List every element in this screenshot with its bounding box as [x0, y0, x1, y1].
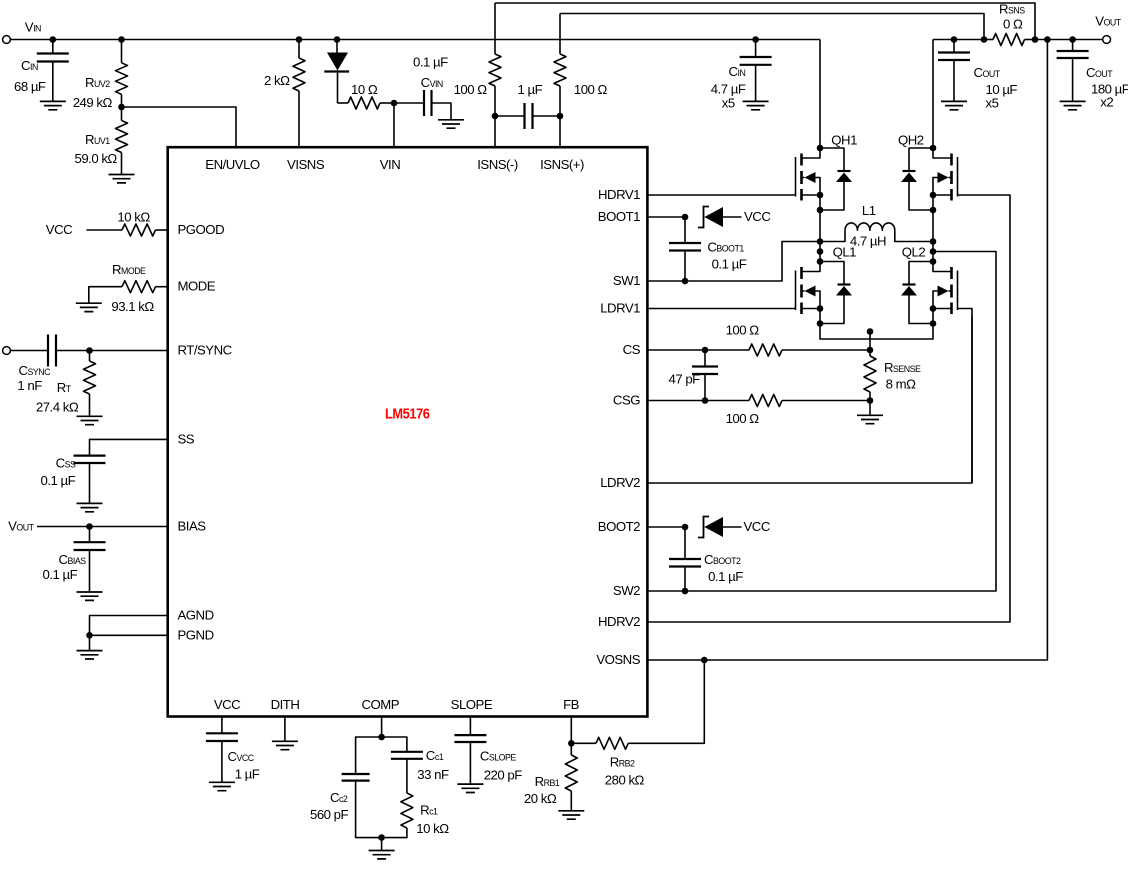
svg-text:VOSNS: VOSNS: [596, 652, 640, 667]
node AGND/PGND junction: [86, 632, 93, 639]
capacitor 1uF ISNS filter: [495, 115, 525, 117]
node BOOT2 junction: [682, 524, 689, 531]
inductor L1 4.7uH: [820, 230, 845, 241]
node COMP junction: [378, 734, 385, 741]
svg-text:VISNS: VISNS: [287, 157, 325, 172]
junction RSNS right / ISNS- sense: [1032, 36, 1039, 43]
svg-text:LDRV2: LDRV2: [600, 475, 640, 490]
terminal SYNC input: [3, 347, 11, 355]
wire QL2 drain: [932, 242, 934, 262]
ground CSLOPE: [457, 784, 483, 792]
wire QH2 drain from VOUT rail: [932, 40, 934, 149]
wire SW2 pin: [647, 590, 685, 592]
svg-text:0.1 µF: 0.1 µF: [708, 569, 743, 584]
ground CVIN: [438, 120, 464, 128]
wire VIN pin: [393, 103, 395, 147]
wire QH1 drain from VIN rail: [819, 40, 821, 149]
ground DITH pin: [284, 717, 286, 742]
resistor 100 Ohm ISNS+ with sense wire to RSNS left: [560, 14, 984, 40]
svg-text:L1: L1: [862, 203, 876, 218]
node ISNS+ junction: [557, 113, 564, 120]
wire EN/UVLO: [122, 107, 237, 147]
wire CS pin: [647, 349, 705, 351]
svg-text:0.1 µF: 0.1 µF: [43, 567, 78, 582]
node CS junction: [702, 347, 709, 354]
wire RT/SYNC pin: [90, 350, 168, 352]
node ISNS- junction: [492, 113, 499, 120]
node SW1 junction: [682, 278, 689, 285]
transistor QL2: [933, 262, 952, 272]
svg-text:VIN: VIN: [380, 157, 400, 172]
capacitor CBOOT2 0.1uF: [684, 527, 686, 559]
wire QL1 drain: [819, 242, 821, 262]
svg-text:68 µF: 68 µF: [14, 79, 46, 94]
wire LDRV1 to QL1 gate: [647, 308, 795, 310]
transistor QH2: [933, 148, 952, 158]
wire ISNS- pin: [494, 116, 496, 147]
svg-text:SW1: SW1: [613, 273, 640, 288]
svg-text:20 kΩ: 20 kΩ: [524, 791, 557, 806]
svg-text:1 nF: 1 nF: [17, 378, 42, 393]
svg-text:SW2: SW2: [613, 583, 640, 598]
svg-text:LDRV1: LDRV1: [600, 301, 640, 316]
diode D1 VIN: [334, 36, 341, 43]
svg-text:CSG: CSG: [613, 393, 640, 408]
node RT/SYNC junction: [86, 347, 93, 354]
svg-text:ISNS(-): ISNS(-): [477, 157, 518, 172]
svg-text:560 pF: 560 pF: [310, 807, 349, 822]
node BIAS junction: [86, 523, 93, 530]
wire SS pin: [90, 439, 168, 455]
capacitor CSYNC 1nF: [11, 350, 48, 352]
svg-text:10 Ω: 10 Ω: [351, 82, 378, 97]
wire HDRV2 to QH2 gate: [647, 195, 1010, 622]
svg-text:280 kΩ: 280 kΩ: [605, 773, 645, 788]
wire AGND pin: [90, 616, 168, 636]
svg-text:4.7 µF: 4.7 µF: [711, 82, 746, 97]
svg-text:VCC: VCC: [744, 519, 771, 534]
wire ISNS+ pin: [559, 116, 561, 147]
resistor 2k VISNS: [296, 36, 303, 43]
capacitor CBOOT1 0.1uF: [684, 217, 686, 243]
node BOOT1 junction: [682, 214, 689, 221]
capacitor CSLOPE 220pF: [469, 717, 471, 736]
ground CIN: [40, 101, 66, 109]
ground RRB1: [558, 811, 584, 819]
ground COUT 10uF: [941, 101, 967, 109]
wire HDRV1 to QH1 gate: [647, 194, 795, 196]
terminal VIN: [3, 36, 11, 44]
svg-text:RT/SYNC: RT/SYNC: [178, 343, 233, 358]
wire COMP pin: [381, 717, 383, 738]
ground COMP network: [381, 838, 383, 851]
svg-text:COMP: COMP: [362, 697, 400, 712]
resistor RSNS 0 Ohm: [984, 39, 993, 41]
wire CSG pin: [647, 400, 705, 402]
wire PGND pin: [90, 634, 168, 636]
svg-text:LM5176: LM5176: [385, 405, 430, 422]
wire SW1 to switch node: [647, 280, 685, 282]
wire BOOT2 pin: [647, 526, 685, 528]
svg-text:AGND: AGND: [178, 608, 214, 623]
ground RT: [77, 416, 103, 424]
wire QH1 source to inductor node: [819, 210, 821, 242]
node COMP network bottom junction: [378, 834, 385, 841]
node SW1/L1 junction: [817, 238, 824, 245]
node VIN pin junction: [391, 100, 398, 107]
svg-text:47 pF: 47 pF: [669, 372, 701, 387]
node FB junction: [568, 740, 575, 747]
svg-text:ISNS(+): ISNS(+): [540, 157, 584, 172]
svg-text:VCC: VCC: [46, 222, 73, 237]
node SW2 aux junction: [930, 248, 937, 255]
wire FB pin: [570, 717, 572, 744]
svg-text:QH1: QH1: [831, 133, 857, 148]
svg-text:FB: FB: [563, 697, 580, 712]
svg-text:0.1 µF: 0.1 µF: [413, 55, 448, 70]
ground CBIAS: [77, 592, 103, 600]
svg-text:x2: x2: [1100, 95, 1113, 110]
svg-text:HDRV2: HDRV2: [598, 614, 640, 629]
resistor 100 Ohm ISNS- with sense wire to RSNS right: [495, 3, 1035, 40]
svg-text:SS: SS: [178, 431, 195, 446]
svg-text:93.1 kΩ: 93.1 kΩ: [111, 299, 154, 314]
resistor RUV2 249k: [118, 36, 125, 43]
zener diode DBOOT1 to VCC: [698, 207, 709, 228]
resistor RMODE 93.1k: [156, 286, 168, 288]
svg-text:BOOT2: BOOT2: [598, 519, 640, 534]
svg-text:MODE: MODE: [178, 279, 216, 294]
svg-text:220 pF: 220 pF: [484, 768, 523, 783]
svg-text:249 kΩ: 249 kΩ: [73, 95, 113, 110]
svg-text:SLOPE: SLOPE: [451, 697, 493, 712]
node SW1 aux junction: [817, 248, 824, 255]
svg-text:0.1 µF: 0.1 µF: [712, 257, 747, 272]
resistor Rc1 10k: [401, 793, 413, 828]
node CSG junction: [702, 397, 709, 404]
node EN/UVLO divider junction: [118, 104, 125, 111]
svg-text:VCC: VCC: [214, 697, 241, 712]
svg-text:CS: CS: [623, 342, 641, 357]
resistor 100 Ohm CS: [705, 349, 749, 351]
svg-text:100 Ω: 100 Ω: [726, 323, 760, 338]
node SW2/L1 junction: [930, 238, 937, 245]
node RSENSE top junction: [867, 347, 874, 354]
svg-text:VCC: VCC: [744, 209, 771, 224]
capacitor CVCC 1uF: [221, 717, 223, 734]
capacitor CSS 0.1uF: [74, 456, 106, 463]
svg-text:2 kΩ: 2 kΩ: [264, 73, 290, 88]
svg-text:BOOT1: BOOT1: [598, 209, 640, 224]
resistor 100 Ohm CSG: [705, 400, 749, 402]
svg-text:EN/UVLO: EN/UVLO: [205, 157, 260, 172]
svg-text:4.7 µH: 4.7 µH: [850, 234, 886, 249]
resistor RUV1 59k: [121, 107, 123, 121]
resistor RSENSE 8mOhm: [867, 328, 874, 335]
ground RSENSE: [869, 401, 871, 416]
svg-text:8 mΩ: 8 mΩ: [886, 377, 916, 392]
wire BOOT1 pin: [647, 216, 685, 218]
svg-text:HDRV1: HDRV1: [598, 187, 640, 202]
ground CSS: [77, 503, 103, 511]
svg-text:0 Ω: 0 Ω: [1003, 17, 1023, 32]
ground AGND/PGND: [89, 635, 91, 650]
svg-text:0.1 µF: 0.1 µF: [41, 473, 76, 488]
terminal VOUT: [1103, 36, 1111, 44]
svg-text:x5: x5: [986, 96, 999, 111]
node SW2 junction: [682, 588, 689, 595]
svg-text:PGOOD: PGOOD: [178, 222, 225, 237]
ground COUT 180uF: [1060, 101, 1086, 109]
wire LDRV2 vertical riser to QL2 gate: [958, 309, 973, 484]
capacitor 47pF CS-CSG: [704, 350, 706, 367]
svg-text:27.4 kΩ: 27.4 kΩ: [36, 400, 79, 415]
zener diode DBOOT2 to VCC: [698, 517, 709, 538]
resistor 10k PGOOD pullup: [87, 229, 123, 231]
svg-text:x5: x5: [722, 96, 735, 111]
svg-text:1 µF: 1 µF: [518, 82, 543, 97]
ground CVCC: [209, 782, 235, 790]
capacitor CIN 4.7uF x5: [752, 36, 759, 43]
wire LDRV2 to QL2 gate: [647, 317, 972, 484]
capacitor COUT 180uF x2: [1069, 36, 1076, 43]
capacitor CIN 68uF: [50, 36, 57, 43]
resistor RT 27.4k: [89, 351, 91, 362]
svg-text:QH2: QH2: [898, 133, 924, 148]
IC U1 LM5176: [168, 147, 648, 716]
svg-text:100 Ω: 100 Ω: [574, 82, 608, 97]
svg-text:1 µF: 1 µF: [235, 767, 260, 782]
resistor 10 Ohm: [338, 102, 349, 104]
wire QH2 source to inductor node: [932, 210, 934, 242]
resistor RRB2 280k: [571, 742, 596, 744]
svg-text:59.0 kΩ: 59.0 kΩ: [75, 151, 118, 166]
wire QL source bus to RSENSE: [820, 324, 933, 340]
svg-text:DITH: DITH: [271, 697, 300, 712]
label L1: [848, 234, 886, 245]
svg-text:100 Ω: 100 Ω: [454, 82, 488, 97]
node VOSNS junction to feedback: [701, 657, 708, 664]
svg-text:10 kΩ: 10 kΩ: [416, 821, 449, 836]
wire RRB2 to VOSNS: [628, 660, 704, 743]
svg-text:100 Ω: 100 Ω: [726, 411, 760, 426]
capacitor Cc1 33nF: [382, 737, 407, 752]
wire VIN rail: [11, 39, 820, 41]
node RSENSE bottom junction: [867, 397, 874, 404]
capacitor CBIAS 0.1uF: [89, 527, 91, 543]
svg-text:10 kΩ: 10 kΩ: [117, 210, 150, 225]
junction RSNS left / ISNS+ sense: [981, 36, 988, 43]
resistor RRB1 20k: [570, 743, 572, 755]
ground RMODE: [76, 303, 102, 311]
svg-text:BIAS: BIAS: [178, 519, 207, 534]
ground CIN 4.7uF: [743, 101, 769, 109]
ground RUV1: [109, 175, 135, 183]
capacitor COUT 10uF x5: [951, 36, 958, 43]
svg-text:33 nF: 33 nF: [417, 767, 449, 782]
transistor QH1: [802, 148, 821, 158]
transistor QL1: [802, 262, 821, 272]
capacitor Cc2 560pF: [356, 737, 382, 774]
wire VOUT rail: [933, 39, 984, 41]
junction VOSNS sense on VOUT rail: [1044, 36, 1051, 43]
capacitor CVIN 0.1uF: [394, 102, 424, 104]
wire VOSNS pin: [647, 40, 1047, 661]
svg-text:PGND: PGND: [178, 627, 214, 642]
svg-text:QL2: QL2: [902, 245, 926, 260]
wire BIAS pin: [37, 526, 168, 528]
